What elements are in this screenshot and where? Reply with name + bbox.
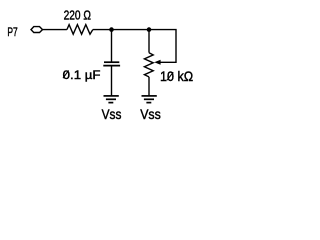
svg-text:Vss: Vss: [140, 106, 161, 122]
wire potentiometer to ground 2: [148, 77, 150, 96]
junction node B: [147, 27, 152, 32]
slashed zero of 10: [167, 72, 173, 80]
junction node A: [109, 27, 114, 32]
svg-text:0.1 µF: 0.1 µF: [63, 68, 101, 82]
capacitor C1 top plate: [104, 61, 119, 63]
wire capacitor to ground 1: [111, 66, 113, 96]
wire node B down to potentiometer: [148, 30, 150, 53]
wire node B to top right corner: [149, 30, 176, 63]
wire node A down to capacitor: [111, 30, 113, 63]
wire pin to resistor: [43, 29, 67, 31]
resistor R1: [67, 25, 93, 35]
potentiometer R2 zigzag: [144, 53, 153, 77]
svg-text:220 Ω: 220 Ω: [64, 8, 92, 23]
slashed zero of 0.1: [63, 70, 69, 78]
wiper arrow of potentiometer: [154, 60, 160, 65]
ground 2 (Vss): [142, 96, 157, 103]
svg-text:P7: P7: [7, 25, 18, 39]
wire resistor to node A: [93, 29, 112, 31]
pin connector P7: [31, 27, 43, 33]
capacitor C1 bottom plate: [103, 65, 120, 67]
wire node A to node B: [112, 29, 150, 31]
svg-text:10 kΩ: 10 kΩ: [160, 68, 193, 84]
svg-text:Vss: Vss: [102, 106, 122, 122]
ground 1 (Vss): [104, 96, 119, 103]
